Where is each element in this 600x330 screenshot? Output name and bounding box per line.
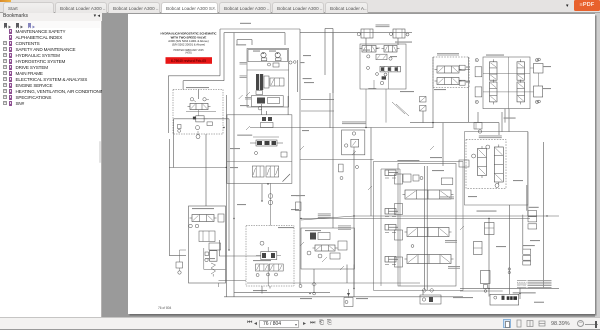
svg-text:76 of 804: 76 of 804 — [158, 306, 172, 310]
svg-text:6-79040 revised Feb-05: 6-79040 revised Feb-05 — [171, 59, 206, 63]
svg-text:(4/05): (4/05) — [185, 51, 191, 54]
svg-text:(S/N 5262 20001 & Above): (S/N 5262 20001 & Above) — [172, 43, 205, 47]
